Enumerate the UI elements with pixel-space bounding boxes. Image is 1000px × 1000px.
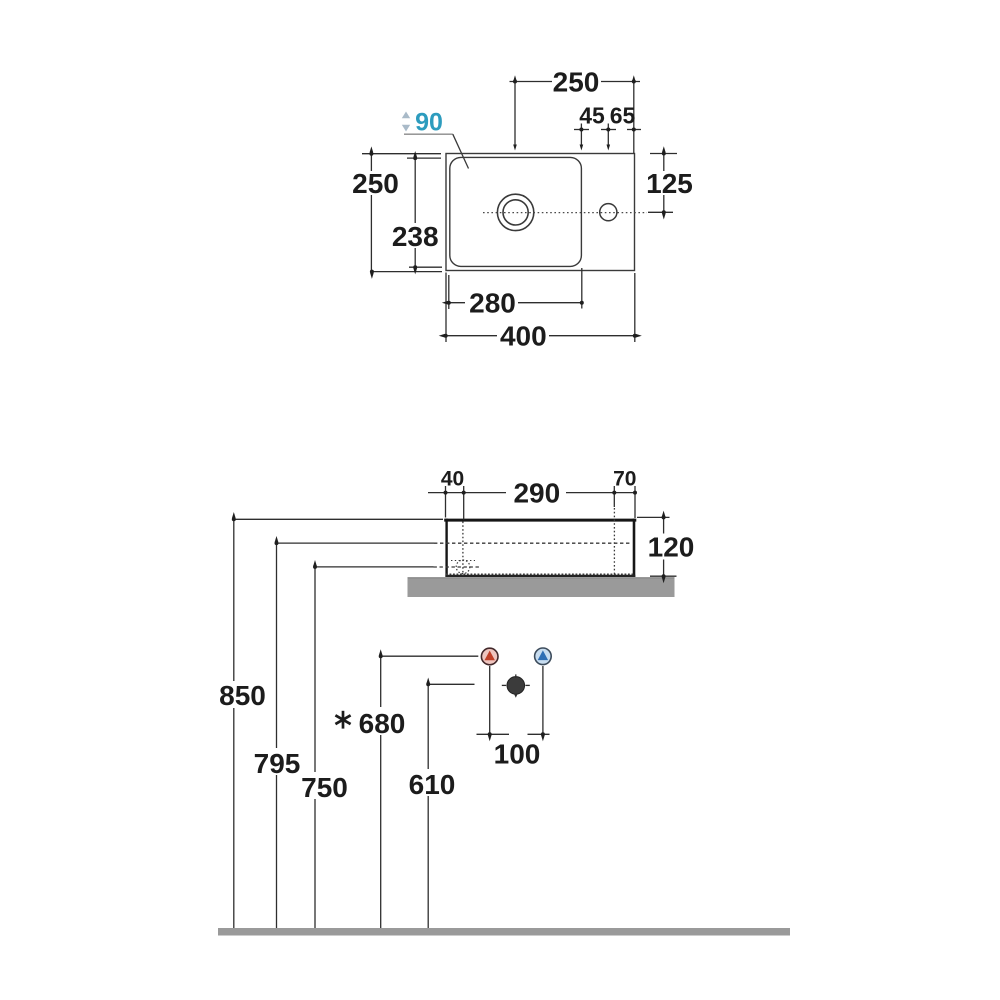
svg-text:100: 100	[494, 738, 541, 769]
svg-text:125: 125	[646, 168, 693, 199]
svg-text:40: 40	[441, 468, 464, 491]
svg-text:400: 400	[500, 320, 547, 351]
svg-text:795: 795	[254, 748, 301, 779]
svg-text:610: 610	[409, 769, 456, 800]
svg-text:120: 120	[648, 531, 695, 562]
svg-text:65: 65	[610, 102, 636, 128]
svg-text:850: 850	[219, 680, 266, 711]
svg-text:45: 45	[579, 102, 605, 128]
svg-text:90: 90	[415, 109, 443, 137]
svg-text:280: 280	[469, 287, 516, 318]
svg-text:238: 238	[392, 221, 439, 252]
svg-text:680: 680	[359, 708, 406, 739]
svg-text:750: 750	[301, 772, 348, 803]
svg-text:70: 70	[613, 468, 636, 491]
svg-text:290: 290	[513, 478, 560, 509]
svg-text:250: 250	[352, 168, 399, 199]
svg-text:250: 250	[553, 66, 600, 97]
